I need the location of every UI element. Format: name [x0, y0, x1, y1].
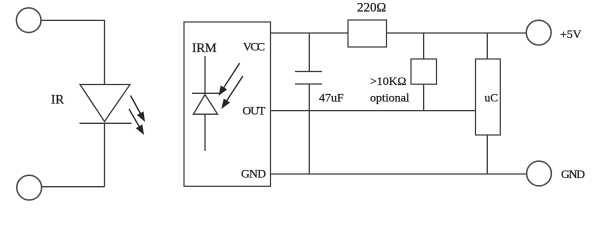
photodiode incoming arrow 2: [222, 76, 243, 108]
resistor R1 box: [348, 20, 387, 47]
capacitor C1 plates: [295, 72, 322, 85]
svg-text:>10KΩ: >10KΩ: [370, 74, 406, 88]
wire GND net: [271, 173, 527, 175]
resistor R2 top lead: [423, 33, 425, 59]
svg-text:optional: optional: [370, 91, 410, 105]
photodiode cathode bar: [192, 92, 219, 94]
terminal +5V: [526, 20, 551, 45]
svg-text:IR: IR: [51, 92, 64, 107]
svg-text:+5V: +5V: [560, 27, 582, 41]
uC U2 bottom lead: [486, 135, 488, 174]
wire OUT net: [271, 110, 476, 112]
LED D1 cathode bar: [80, 122, 132, 124]
photodiode bottom lead: [204, 114, 206, 151]
photodiode incoming arrow 1: [219, 63, 240, 95]
LED D1 emission arrow 1: [131, 96, 145, 122]
wire J1 to LED anode: [41, 20, 105, 84]
wire VCC net left segment: [271, 32, 348, 34]
svg-text:220Ω: 220Ω: [357, 0, 386, 15]
svg-text:VCC: VCC: [243, 40, 265, 54]
resistor R2 bottom lead: [423, 84, 425, 110]
photodiode triangle: [193, 95, 217, 115]
wire LED cathode down: [104, 123, 106, 186]
svg-text:uC: uC: [485, 93, 499, 105]
capacitor C1 top lead: [308, 33, 310, 72]
svg-text:GND: GND: [241, 167, 266, 181]
svg-text:47uF: 47uF: [319, 91, 344, 105]
svg-text:OUT: OUT: [243, 104, 267, 118]
IRM module U1 box: [184, 22, 271, 186]
wire VCC net right segment: [387, 32, 527, 34]
wire bottom to J2: [42, 186, 105, 188]
photodiode top lead: [204, 56, 206, 93]
terminal GND (right): [527, 161, 552, 186]
svg-text:IRM: IRM: [192, 40, 217, 55]
LED D1 triangle: [80, 85, 130, 122]
terminal J1 (top-left): [16, 8, 41, 33]
uC U2 top lead: [486, 33, 488, 59]
LED D1 emission arrow 2: [129, 109, 144, 134]
uC U2 box: [476, 59, 501, 135]
capacitor C1 bottom lead: [308, 84, 310, 174]
terminal J2 (bottom-left): [17, 175, 42, 200]
resistor R2 box: [411, 59, 437, 84]
svg-text:GND: GND: [561, 167, 585, 181]
